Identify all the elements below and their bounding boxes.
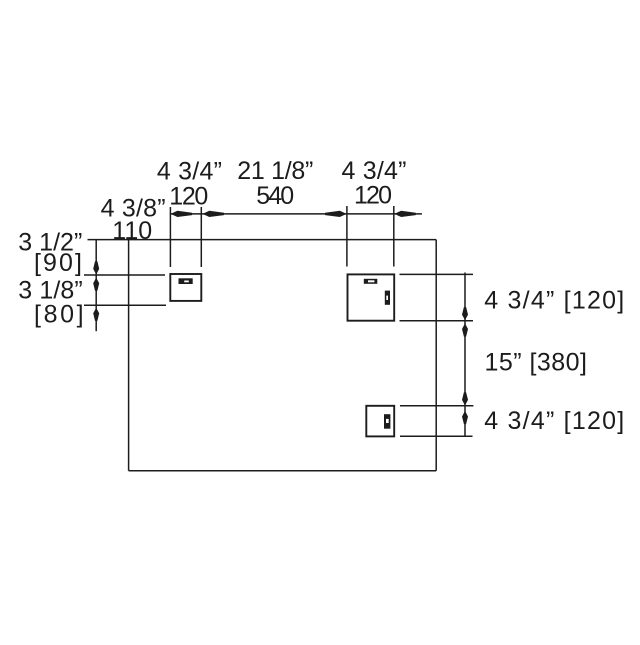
right vertical dimension line	[464, 273, 466, 437]
svg-text:4 3/4” [120]: 4 3/4” [120]	[484, 407, 624, 435]
mounting box bottom-right	[366, 406, 394, 437]
right extension line at y321	[400, 320, 474, 322]
extension line above left box, right side	[200, 207, 202, 267]
arrow down at y275 left dim	[93, 261, 99, 274]
mounting box top-left	[170, 274, 201, 301]
horizontal keyhole marker in right box	[364, 279, 378, 284]
arrow down at y405 right dim	[462, 392, 468, 405]
svg-text:110: 110	[112, 217, 152, 245]
svg-text:540: 540	[256, 182, 294, 210]
extension line above left box, left side	[169, 207, 171, 267]
arrow left at x170 top dim	[171, 211, 193, 217]
arrow right at x347 top dim	[325, 211, 347, 217]
mounting box right (large)	[348, 274, 395, 320]
arrow down at y320 right dim	[462, 307, 468, 320]
top dimension line	[170, 213, 422, 215]
main panel top edge (extended left)	[88, 239, 437, 241]
right extension line at y436	[400, 435, 473, 437]
right extension line at y274	[400, 273, 474, 275]
svg-text:4 3/4” [120]: 4 3/4” [120]	[484, 286, 624, 314]
left vertical dimension line	[95, 240, 97, 332]
vertical keyhole marker in bottom-right box	[384, 414, 390, 429]
arrow left at x394 top dim	[394, 211, 416, 217]
main panel right edge	[435, 240, 437, 471]
right extension line at y406	[400, 405, 473, 407]
left extension line at y275	[84, 274, 165, 276]
arrow up at y278 left dim	[93, 278, 99, 291]
svg-text:120: 120	[354, 182, 392, 210]
svg-text:21 1/8”: 21 1/8”	[237, 157, 313, 185]
keyhole marker in top-left box	[179, 278, 193, 284]
arrow up at y411 right dim	[462, 411, 468, 424]
arrow up at y308 left dim	[93, 308, 99, 321]
vertical keyhole marker in right box	[385, 291, 390, 305]
main panel left edge	[128, 240, 130, 471]
arrow up at y324 right dim	[462, 323, 468, 336]
extension line above right box, right side	[393, 206, 395, 267]
arrow left at x202 top dim	[203, 211, 225, 217]
left extension line at y305	[84, 304, 166, 306]
main panel bottom edge	[129, 470, 437, 472]
svg-text:15” [380]: 15” [380]	[485, 349, 588, 377]
extension line above right box, left side	[346, 206, 348, 267]
svg-text:4 3/4”: 4 3/4”	[157, 158, 222, 186]
svg-text:120: 120	[169, 183, 208, 211]
